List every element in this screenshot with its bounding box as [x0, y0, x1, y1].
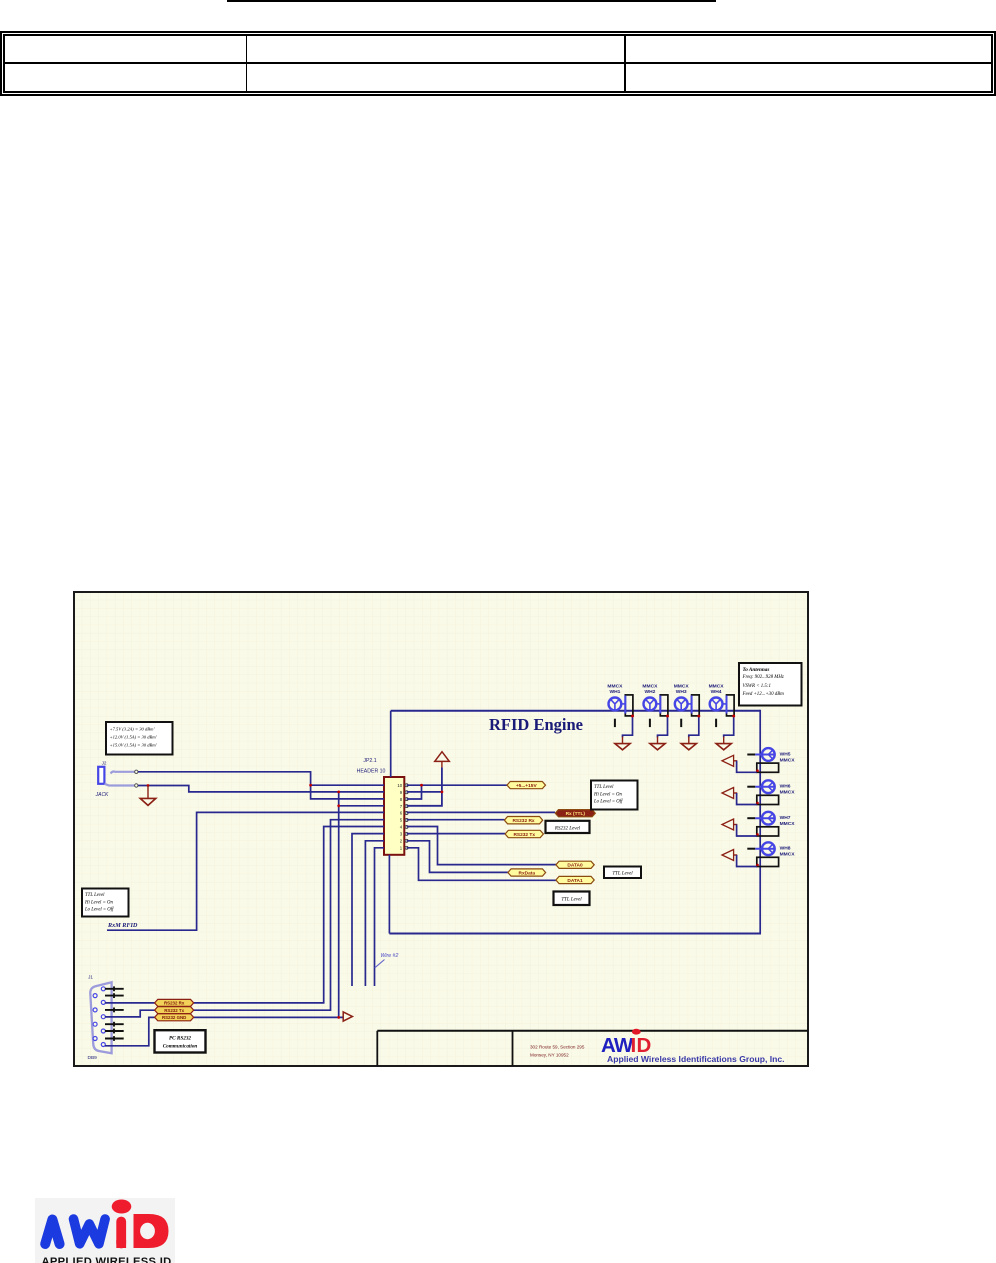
junction antenna WH2 — [666, 715, 669, 718]
svg-text:10: 10 — [397, 783, 402, 788]
arrow WH8 feed — [722, 850, 734, 861]
svg-text:TTL Level: TTL Level — [85, 893, 105, 898]
svg-text:RxData: RxData — [518, 870, 535, 876]
arrow WH6 feed — [722, 788, 734, 799]
label RS232 Tx (DB9) — [155, 1007, 194, 1014]
wire antenna WH1 to ground — [623, 716, 633, 737]
wire J1 unused pin stub — [105, 1022, 124, 1027]
connector J2 JACK — [95, 761, 138, 799]
label DATA0 — [556, 861, 594, 868]
ground antenna WH4 — [723, 737, 725, 744]
svg-text:HEADER 10: HEADER 10 — [357, 769, 386, 775]
note box To Antennas — [739, 663, 802, 706]
logo AWID (title block) — [601, 1029, 785, 1064]
pin 10 of JP2.1 — [397, 783, 408, 788]
logo AWID letter A — [45, 1220, 59, 1245]
pin 7 of JP2.1 — [400, 804, 408, 809]
wire WH7 feed — [737, 825, 757, 837]
label RS232 Rx — [504, 817, 542, 824]
svg-text:Hi Level = On: Hi Level = On — [593, 792, 622, 797]
junction pin7 branch — [337, 804, 340, 807]
svg-text:WH2: WH2 — [644, 689, 655, 695]
wire JP2.1 pin1 stub to bottom edge — [388, 855, 390, 934]
svg-text:+5...+15V: +5...+15V — [516, 783, 538, 789]
pin 5 of J1 — [101, 1015, 105, 1019]
wire WH8 feed — [737, 855, 757, 867]
svg-text:MMCX: MMCX — [780, 790, 796, 796]
svg-text:Freq: 902...928 MHz: Freq: 902...928 MHz — [742, 675, 784, 680]
junction WH6 — [756, 802, 759, 805]
svg-text:RS232 Tx: RS232 Tx — [513, 832, 535, 838]
junction antenna WH4 — [732, 715, 735, 718]
svg-text:DATA1: DATA1 — [567, 878, 583, 884]
logo AWID letter W — [74, 1219, 106, 1244]
wire pin3 to RS232 Tx flag — [407, 833, 506, 835]
ground antenna WH1 — [622, 737, 624, 744]
connector J-MMCX WH1 — [607, 683, 632, 716]
wire pin1 to DATA1 flag — [407, 848, 556, 881]
wire antenna WH1 stub — [614, 719, 616, 727]
svg-text:DB9: DB9 — [88, 1055, 98, 1061]
svg-text:PC RS232: PC RS232 — [169, 1036, 191, 1042]
logo AWID letter i dot — [112, 1200, 132, 1214]
junction sleeve net — [337, 791, 340, 794]
svg-text:WH6: WH6 — [780, 784, 791, 790]
wire pin4 to DATA0 flag — [407, 827, 556, 865]
svg-text:Applied Wireless Identificatio: Applied Wireless Identifications Group, … — [607, 1054, 785, 1064]
wire J1 unused pin stub — [105, 1029, 124, 1034]
svg-text:Feed +12...+30 dBm: Feed +12...+30 dBm — [742, 692, 785, 697]
svg-text:+15.0V (1.5A) = 30 dBm’: +15.0V (1.5A) = 30 dBm’ — [110, 743, 158, 748]
svg-text:JACK: JACK — [95, 792, 109, 798]
note box TTL Level mid — [604, 867, 641, 879]
wire VCC to pin9 and pin7 — [407, 768, 442, 806]
wire pin3 ribbon lead — [352, 834, 384, 986]
label RS232 Tx — [505, 830, 543, 837]
svg-text:RS232 Rx: RS232 Rx — [512, 818, 534, 824]
wire pin5 to RS232 Rx flag — [407, 819, 505, 821]
svg-text:+7.5V (3.2A) = 30 dBm’: +7.5V (3.2A) = 30 dBm’ — [110, 727, 156, 732]
svg-text:MMCX: MMCX — [642, 683, 658, 689]
schematic sheet background — [74, 592, 808, 1066]
svg-text:MMCX: MMCX — [709, 683, 725, 689]
svg-text:APPLIED WIRELESS ID: APPLIED WIRELESS ID — [42, 1256, 172, 1263]
arrow WH7 feed — [722, 819, 734, 830]
pin 8 of J1 — [93, 1037, 97, 1041]
junction WH7 — [756, 833, 759, 836]
arrow WH5 feed — [722, 755, 734, 766]
note box TTL level right — [591, 781, 638, 810]
svg-text:VSWR < 1.5:1: VSWR < 1.5:1 — [743, 684, 771, 689]
junction antenna WH3 — [697, 715, 700, 718]
connector J-MMCX WH2 — [642, 683, 667, 716]
note box TTL Level lower — [554, 892, 590, 906]
note box PC RS232 Communication — [155, 1030, 206, 1052]
svg-text:WH5: WH5 — [780, 752, 791, 758]
wire pin2 ribbon lead — [365, 841, 384, 986]
wire branch to pin7 left — [339, 805, 384, 807]
header JP2.1 HEADER 10 — [357, 758, 405, 855]
pin 4 of J1 — [93, 1008, 97, 1012]
svg-text:TTL Level: TTL Level — [561, 898, 582, 903]
pin 9 of J1 — [101, 1043, 105, 1047]
svg-text:JP2.1: JP2.1 — [363, 758, 376, 764]
wire pin10 to +5V flag — [407, 784, 507, 786]
svg-text:Lo Level = Off: Lo Level = Off — [593, 800, 623, 805]
svg-text:MMCX: MMCX — [780, 821, 796, 827]
connector J-MMCX WH6 — [747, 780, 795, 804]
wire pin5 to RS232 Tx row — [194, 820, 384, 1011]
connector J-MMCX WH8 — [747, 842, 795, 866]
svg-text:Communication: Communication — [163, 1044, 198, 1050]
connector J-MMCX WH4 — [709, 683, 734, 716]
label Rx (TTL) — [555, 810, 595, 817]
svg-text:MMCX: MMCX — [780, 758, 796, 764]
title block frame — [377, 1031, 808, 1066]
svg-text:DATA0: DATA0 — [567, 863, 583, 869]
wire antenna WH2 stub — [649, 719, 651, 727]
wire J1 unused pin stub — [105, 1008, 124, 1013]
svg-text:WH7: WH7 — [780, 815, 791, 821]
logo AWID letter D — [134, 1214, 169, 1248]
pin 6 of JP2.1 — [400, 811, 408, 816]
pin 8 of JP2.1 — [400, 797, 408, 802]
junction WH5 — [756, 769, 759, 772]
wire pin8 up to pin10 net — [407, 785, 422, 799]
junction pin9 VCC — [441, 791, 444, 794]
pin 7 of J1 — [101, 1029, 105, 1033]
wire antenna WH3 to ground — [689, 716, 699, 737]
wire antenna WH4 to ground — [724, 716, 734, 737]
pin 2 of J1 — [93, 994, 97, 998]
svg-text:To Antennas: To Antennas — [743, 667, 770, 673]
power VCC arrow symbol — [435, 752, 450, 762]
svg-text:TTL Level: TTL Level — [612, 872, 633, 877]
svg-text:RxM RFID: RxM RFID — [107, 922, 138, 929]
pin 4 of JP2.1 — [400, 825, 408, 830]
wire J1 pin5 to RS232 Tx — [105, 1010, 155, 1017]
junction antenna WH1 — [631, 715, 634, 718]
svg-text:WH3: WH3 — [676, 689, 687, 695]
svg-text:TTL Level: TTL Level — [594, 785, 614, 790]
pin 5 of JP2.1 — [400, 818, 408, 823]
svg-text:Hi Level = On: Hi Level = On — [84, 900, 113, 905]
pin 1 of J1 — [101, 987, 105, 991]
wire branch to pin10 — [311, 784, 384, 786]
label DATA1 — [556, 876, 594, 883]
wire J1 unused pin stub — [105, 1036, 124, 1041]
pin 1 of JP2.1 — [400, 845, 408, 850]
pin 6 of J1 — [93, 1022, 97, 1026]
logo AWID letter i stem — [116, 1222, 126, 1244]
junction sleeve ground — [147, 784, 150, 787]
wire JP2.1 pin10 stub to bus — [390, 711, 392, 777]
label +5...+15V — [507, 782, 546, 789]
label RxData — [508, 869, 546, 876]
svg-text:Rx (TTL): Rx (TTL) — [566, 811, 586, 817]
svg-text:302 Route 59, Section 295: 302 Route 59, Section 295 — [530, 1045, 585, 1050]
label RS232 Rx (DB9) — [155, 999, 194, 1006]
wire RFID-engine right edge — [759, 710, 761, 934]
svg-text:RS232 Level: RS232 Level — [554, 826, 581, 831]
junction GND row — [337, 1016, 340, 1019]
ground jack sleeve — [147, 786, 149, 799]
wire J1 unused pin stub — [105, 993, 124, 998]
wire antenna WH2 to ground — [658, 716, 668, 737]
wire antenna WH3 stub — [680, 719, 682, 727]
wire WH6 feed — [737, 793, 757, 805]
wire J1 unused pin stub — [105, 986, 124, 991]
connector J1 DB9 — [88, 975, 112, 1054]
svg-text:MMCX: MMCX — [674, 683, 690, 689]
wire J1 pin9 to RS232 GND — [105, 1017, 155, 1045]
svg-text:J1: J1 — [88, 975, 93, 980]
wire antenna WH4 stub — [715, 719, 717, 727]
pin 3 of JP2.1 — [400, 832, 408, 837]
wire jack tip to pins 10 and 8 — [138, 772, 384, 799]
wire RFID-engine top bus — [391, 710, 761, 712]
wire pin6 to RxM RFID — [107, 812, 384, 930]
svg-text:WH4: WH4 — [711, 689, 722, 695]
svg-text:MMCX: MMCX — [780, 852, 796, 858]
wire pin2 to RxData flag — [407, 841, 508, 873]
svg-text:RS232 Rx: RS232 Rx — [164, 1001, 185, 1006]
svg-text:J2: J2 — [102, 761, 107, 766]
connector J-MMCX WH5 — [747, 748, 795, 772]
pin 2 of JP2.1 — [400, 839, 408, 844]
node company address — [530, 1045, 585, 1058]
junction tip branch — [309, 784, 312, 787]
svg-text:RFID Engine: RFID Engine — [489, 715, 583, 734]
wire pin4 to RS232 Rx row — [194, 827, 384, 1003]
junction WH8 — [756, 864, 759, 867]
pin 9 of JP2.1 — [400, 790, 408, 795]
svg-text:Lo Level = Off: Lo Level = Off — [84, 908, 114, 913]
connector J-MMCX WH7 — [747, 812, 795, 836]
wire pin6 to Rx TTL flag — [407, 811, 555, 813]
svg-text:Monsey, NY 10952: Monsey, NY 10952 — [530, 1053, 569, 1058]
wire RS232 GND row — [194, 1016, 343, 1018]
wire WH5 feed — [737, 761, 757, 773]
note box supply levels — [106, 722, 173, 755]
svg-text:+12.0V (1.5A) = 30 dBm’: +12.0V (1.5A) = 30 dBm’ — [110, 735, 158, 740]
wire jack sleeve to pin9 — [138, 786, 384, 792]
svg-text:Wire #2: Wire #2 — [381, 953, 399, 959]
note box RS232 Level — [546, 821, 590, 833]
pin 3 of J1 — [101, 1000, 105, 1004]
svg-text:MMCX: MMCX — [607, 683, 623, 689]
svg-text:RS232 GND: RS232 GND — [162, 1015, 186, 1020]
arrow RS232 GND flow — [343, 1012, 352, 1021]
wire pin9 right — [407, 791, 442, 793]
wire sleeve net down to RS232 GND — [338, 792, 340, 1018]
svg-text:WH8: WH8 — [780, 846, 791, 852]
ground antenna WH3 — [688, 737, 690, 744]
wire J1 pin3 to RS232 Rx — [105, 1002, 155, 1004]
ground antenna WH2 — [657, 737, 659, 744]
connector J-MMCX WH3 — [674, 683, 699, 716]
note box TTL level left — [82, 889, 129, 917]
svg-text:WH1: WH1 — [609, 689, 620, 695]
label RS232 GND (DB9) — [155, 1014, 194, 1021]
svg-text:RS232 Tx: RS232 Tx — [164, 1008, 184, 1013]
wire RFID-engine bottom edge — [389, 933, 761, 935]
wire pin1 ribbon lead — [375, 848, 385, 986]
junction pin8 net — [420, 784, 423, 787]
